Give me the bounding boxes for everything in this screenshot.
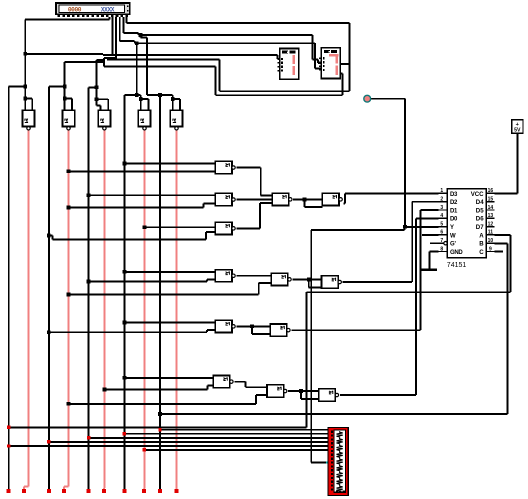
wire [252,333,270,335]
wire [415,218,417,395]
wire [120,40,135,42]
wire [89,86,97,88]
wire [202,203,204,207]
wire W pin6 stub [422,234,439,236]
svg-text:2: 2 [440,197,443,203]
junction [250,324,254,328]
rail bit0 direct V1 [8,87,10,490]
wire [315,67,321,69]
junction [158,428,161,431]
junction G3.in2 src [47,234,51,238]
multiplexer U6 74151 [439,188,495,269]
wire feed NOT5 column [146,37,148,95]
svg-text:13: 13 [488,213,494,219]
junction NOT5 pins [171,97,175,101]
wire [277,58,279,60]
wire [311,461,326,463]
svg-text:D7: D7 [476,224,484,231]
terminal [102,489,106,493]
wire [304,206,322,208]
wire [206,231,215,233]
wire feed NOT2 column [64,62,66,110]
wire net c to 7seg2 [135,42,315,44]
wire H2.out [292,278,321,280]
junction NOT1 pins [23,97,27,101]
wire G6.in2 [105,389,208,391]
wire G1.in2 [69,170,216,172]
svg-text:4: 4 [440,213,443,219]
nor gate K1 [322,193,342,205]
wire [140,95,142,110]
wire B to V9 [160,413,508,415]
wire [255,395,257,404]
wire U1 left leg [219,60,221,92]
svg-text:1: 1 [440,188,443,194]
wire net-a to 7seg1 [25,53,103,55]
svg-text:XXXX: XXXX [101,6,115,13]
wire K1.out [344,202,345,204]
rail bit2 direct V5 [88,87,90,489]
wire K3.out [340,394,416,396]
junction [143,448,146,451]
wire feed NOT4 column [136,43,138,95]
junction [123,270,127,274]
wire [179,99,181,110]
wire [509,235,511,292]
wire [317,59,319,63]
nor gate H3 [270,324,290,336]
svg-text:6: 6 [440,230,443,236]
nor gate G2 [215,193,235,205]
wire [411,202,413,282]
nor gate G5 [215,320,235,332]
wire [173,98,180,100]
wire [245,382,247,388]
wire [100,105,102,110]
wire [208,385,214,387]
svg-text:D4: D4 [476,199,484,206]
nor gate G1 [215,161,235,173]
wire [124,94,136,96]
wire [259,282,272,284]
junction [67,293,71,297]
svg-text:15: 15 [488,197,494,203]
svg-text:5V: 5V [514,128,521,134]
wire feed NOT2 [65,61,104,63]
wire [309,286,322,288]
wire G5.in1 [124,322,215,324]
svg-text:A: A [479,232,484,239]
wire G2.in2 [69,206,204,208]
wire G4.in1 [124,271,215,273]
wire [103,62,105,67]
junction [143,225,147,229]
nor gate H4 [267,385,287,397]
junction A on V1 [7,426,10,429]
wire [404,227,406,230]
not gate U4 (nor as inverter) [138,110,150,130]
wire Gbar pin7 stub [430,242,444,244]
wire to pin D3 [345,192,439,194]
junction [303,198,307,202]
wire [256,394,267,396]
wire H4.in2 [69,403,257,405]
rail bit1 direct V3 [48,87,50,490]
wire G6.out [234,381,245,383]
wire [25,98,32,100]
wire to pin D1 [421,209,439,211]
wire [103,487,105,489]
7-segment display DISP2 [319,48,340,79]
bubble pin7 G-bar [444,242,447,245]
wire [147,99,149,110]
wire [260,168,262,196]
svg-text:10: 10 [488,238,494,244]
nor gate G3 [215,222,235,234]
wire [71,99,73,111]
wire [206,279,208,281]
wire [123,32,138,34]
wire cyan into pack [326,461,334,463]
svg-text:D5: D5 [476,207,484,214]
svg-text:D6: D6 [476,216,484,223]
nor gate H1 [272,193,292,205]
bus wire 3 [89,437,334,439]
wire [95,99,97,105]
power supply +5V [512,120,523,134]
wire [103,58,105,61]
rail NOT5 out V10 [175,129,177,489]
wire [147,94,173,96]
wire [9,86,26,88]
svg-text:B: B [479,241,484,248]
wire [205,232,207,240]
wire [49,235,53,237]
wire Y pin5 [405,226,439,228]
wire [31,99,33,111]
bus wire 6 [144,449,333,451]
svg-text:5: 5 [440,221,443,227]
wire [138,33,140,35]
svg-text:D0: D0 [450,217,458,223]
svg-text:8: 8 [440,246,443,252]
junction [403,225,407,229]
junction [158,412,162,416]
svg-text:14: 14 [488,205,494,211]
terminal [7,489,11,493]
wire [420,210,422,330]
wire feed NOT1 column [24,20,26,111]
wire Y down to pack [310,230,312,462]
rail bit3 direct V7 [123,95,125,490]
rail NOT2 out V4 [68,129,70,486]
not gate U2 (nor as inverter) [62,110,74,130]
junction net-d [139,33,143,37]
wire [313,58,318,60]
wire G1.out [236,167,260,169]
wire [312,35,314,60]
ground symbol [421,269,437,271]
junction [87,280,91,284]
wire U1 top from bundle [107,59,220,61]
bus wire 2 [124,433,333,435]
junction net-a [23,52,27,56]
junction [7,444,10,447]
junction [87,193,91,197]
terminal [87,489,91,493]
junction to V7 [135,93,139,97]
wire [49,86,65,88]
wire G2.out [236,199,272,201]
wire [349,23,351,91]
terminal [174,489,178,493]
junction [123,432,126,435]
wire VCC pin16 [495,192,518,194]
wire U2 left leg [214,67,216,96]
wire net d to 7seg2 [139,34,313,36]
svg-text:D2: D2 [450,200,458,206]
junction [307,278,311,282]
wire [259,203,261,228]
wire [96,98,108,100]
junction [87,436,90,439]
nor gate G4 [215,270,235,282]
junction [123,376,127,380]
nor gate G6 [213,376,233,388]
wire [207,329,215,331]
wire lcd pin4 down [119,17,121,41]
svg-text:W: W [450,233,456,239]
lcd display DS1 [56,3,130,17]
not gate U3 (nor as inverter) [98,110,110,130]
wire [203,202,215,204]
wire [103,60,105,62]
wire [64,486,69,488]
wire G4.out [236,275,271,277]
wire G2.in1 [89,194,216,196]
resistor pack RN1 [328,428,348,496]
rail bit4 direct V9 [159,95,161,490]
wire lcd pin6 down [126,17,128,23]
wire [207,278,215,280]
wire [429,252,431,270]
bus wire 1 [160,429,334,431]
wire [24,486,29,488]
wire G6.in1 [124,377,213,379]
svg-text:7: 7 [440,238,443,244]
junction [123,321,127,325]
logic probe indicator [364,95,371,102]
wire [206,330,208,332]
wire bundle step a [104,57,116,59]
terminal [158,489,162,493]
junction to V3 [63,85,67,89]
wire [207,386,209,390]
wire to indicator [371,98,405,100]
junction [47,440,50,443]
wire G3.in2 [52,238,206,240]
terminal [122,489,126,493]
wire C pin9 stub [495,251,503,253]
wire [107,99,109,110]
junction to V1 [23,85,27,89]
wire [404,99,406,227]
terminal [142,489,146,493]
not gate U1 (nor as inverter) [22,110,34,130]
wire [103,488,105,490]
wire [65,98,72,100]
wire [141,98,149,100]
wire [143,489,145,490]
wire bundle step b [96,59,104,61]
junction [67,402,71,406]
wire [516,133,518,193]
wire [314,43,316,68]
wire [318,62,321,64]
svg-text:C: C [479,249,484,256]
bus wire 5 [9,445,334,447]
rail NOT1 out V2 [28,129,30,486]
nor gate H2 [271,273,291,285]
wire A run left [306,291,510,293]
junction to V9 [158,93,162,97]
svg-text:3: 3 [440,205,443,211]
wire [172,95,174,110]
wire G1.in1 [124,163,215,165]
wire [246,386,267,388]
terminal [22,489,26,493]
svg-text:9: 9 [489,246,492,252]
rail NOT4 out V8 [143,129,145,488]
svg-text:D3: D3 [450,192,458,198]
wire [103,54,277,56]
junction to V5 [95,85,99,89]
junction net-c [135,41,139,45]
wire [96,104,100,106]
wire hook to 7seg2 right pin2 [341,73,343,75]
wire A to V1 [9,426,307,428]
wire [109,17,111,20]
wire [301,398,319,400]
wire [260,202,272,204]
wire K2.out [343,281,413,283]
wire [143,488,146,490]
wire hook to 7seg2 right pin [341,63,350,65]
nor gate K3 [319,389,339,401]
svg-text:0000: 0000 [68,6,82,13]
wire [276,55,278,59]
wire [300,391,302,399]
wire [308,279,310,287]
wire U2 top from bundle [104,66,215,68]
wire Y run left [311,229,404,231]
junction NOT3 pins [95,97,99,101]
wire A pin11 [495,234,511,236]
wire [51,236,53,240]
7-segment display DISP1 [277,49,298,80]
svg-text:Y: Y [450,225,454,231]
svg-text:VCC: VCC [471,191,484,198]
wire to pin D0 [416,217,439,219]
not gate U5 (nor as inverter) [170,110,182,130]
wire G5.in2 [49,331,207,333]
svg-text:16: 16 [488,188,494,194]
nor gate K2 [322,276,342,288]
wire G4.in2 [89,281,207,283]
wire A down [305,292,307,427]
wire [63,487,65,490]
wire [344,193,346,203]
rail NOT3 out V6 [104,129,106,488]
svg-text:74151: 74151 [447,262,467,269]
wire [251,326,253,334]
junction [67,206,71,210]
wire [140,35,142,37]
wire [102,54,104,55]
bus wire 4 [49,441,334,443]
junction [47,330,51,334]
wire net-b3 top run [127,22,350,24]
wire [141,36,147,38]
junction [103,388,107,392]
wire H3.out [291,329,420,331]
wire [342,74,344,96]
wire U1 bottom [220,90,350,92]
wire lcd pin2 down [112,17,114,55]
wire G3.out [236,227,260,229]
wire U2 bottom [215,94,342,96]
wire [134,41,136,43]
svg-text:12: 12 [488,221,494,227]
svg-text:GND: GND [450,250,463,256]
wire H1.out [293,198,322,200]
wire [507,243,509,414]
svg-text:11: 11 [488,230,494,236]
wire to pin D2 [412,201,438,203]
wire lcd pin5 down [122,17,124,33]
junction [123,162,127,166]
wire H4.out [288,390,319,392]
wire lcd pin1 to NOT1 feed [25,19,109,21]
svg-text:G’: G’ [450,242,456,248]
junction NOT4 pins [139,97,143,101]
junction [67,169,71,173]
wire lcd pin3 down [115,17,117,60]
svg-text:D1: D1 [450,208,458,214]
terminal [62,489,66,493]
junction NOT2 pins [63,97,67,101]
wire [137,94,141,96]
junction [299,389,303,393]
wire GND pin8 [430,251,439,253]
wire [261,194,272,196]
wire B pin10 [495,242,508,244]
wire feed NOT3 column [95,60,97,99]
wire H2.in2 [69,294,259,296]
terminal [47,489,51,493]
wire [23,487,25,490]
wire G3.in1 [144,226,215,228]
wire [258,283,260,295]
wire G5.out [236,325,270,327]
wire [303,199,305,207]
